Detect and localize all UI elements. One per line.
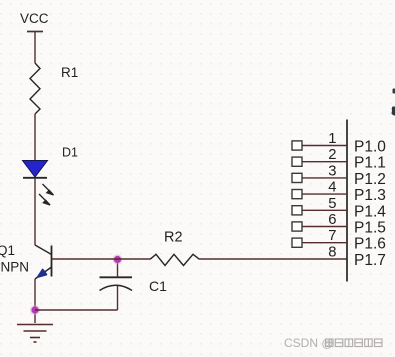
junction node C1/R2/base [113, 255, 123, 265]
svg-text:P1.6: P1.6 [354, 236, 386, 253]
LED D1 emission arrow 1 [43, 184, 54, 195]
connector body edge [346, 120, 348, 282]
wire pin 5 [302, 209, 347, 211]
wire Q1 emitter to ground node [34, 279, 36, 323]
pin 7 terminal square [292, 238, 302, 247]
svg-text:6: 6 [328, 212, 336, 228]
svg-text:NPN: NPN [1, 259, 30, 274]
svg-text:P1.0: P1.0 [354, 139, 386, 156]
wire pin 7 [302, 242, 347, 244]
wire ground node to C1 bottom (horizontal) [35, 309, 118, 311]
wire R2 to connector pin 8 [200, 258, 348, 260]
pin 1 terminal square [292, 141, 302, 150]
wire pin 1 [302, 145, 347, 147]
wire pin 2 [302, 161, 347, 163]
svg-text:C1: C1 [149, 278, 167, 294]
edge artifact right blob [392, 107, 395, 116]
wire Q1 base to R2 [52, 258, 151, 260]
wire R1 to D1 [34, 114, 36, 161]
svg-text:R2: R2 [164, 230, 183, 246]
wire pin 4 [302, 193, 347, 195]
transistor Q1 emitter line [35, 267, 52, 279]
wire pin 3 [302, 177, 347, 179]
wire C1 top lead [117, 259, 119, 277]
LED D1 triangle [23, 161, 48, 178]
transistor Q1 collector line [35, 245, 52, 255]
svg-text:D1: D1 [62, 146, 78, 160]
LED D1 emission arrow 2 [39, 194, 50, 205]
LED D1 cathode bar [23, 177, 47, 179]
wire pin 6 [302, 226, 347, 228]
transistor Q1 base bar [51, 246, 53, 277]
capacitor C1 top plate [100, 276, 133, 278]
svg-text:5: 5 [328, 196, 336, 212]
svg-text:4: 4 [328, 180, 336, 196]
svg-text:7: 7 [328, 228, 336, 244]
capacitor C1 curved plate [100, 285, 133, 290]
svg-text:3: 3 [328, 163, 336, 179]
wire C1 bottom lead (vertical) [117, 286, 119, 310]
resistor R2 [150, 254, 200, 265]
svg-text:1: 1 [328, 131, 336, 147]
svg-text:2: 2 [328, 147, 336, 163]
resistor R1 [30, 63, 40, 114]
power VCC bar symbol [27, 31, 43, 33]
svg-text:P1.7: P1.7 [354, 252, 386, 269]
edge artifact top-right small [393, 89, 395, 94]
svg-text:P1.2: P1.2 [354, 171, 386, 188]
svg-text:P1.5: P1.5 [354, 220, 386, 237]
transistor Q1 emitter arrow [38, 270, 46, 277]
watermark CSDN [284, 336, 382, 350]
pin 3 terminal square [292, 173, 302, 182]
svg-text:P1.3: P1.3 [354, 187, 386, 204]
pin 5 terminal square [292, 206, 302, 215]
svg-text:P1.1: P1.1 [354, 155, 386, 172]
wire D1 to Q1 collector [34, 179, 36, 245]
wire VCC to R1 [34, 32, 36, 64]
pin 6 terminal square [292, 222, 302, 231]
svg-text:R1: R1 [61, 65, 78, 80]
junction node emitter/ground [30, 305, 40, 315]
svg-text:VCC: VCC [20, 11, 49, 26]
pin 2 terminal square [292, 157, 302, 166]
svg-text:P1.4: P1.4 [354, 203, 386, 220]
pin 4 terminal square [292, 190, 302, 199]
svg-text:Q1: Q1 [0, 243, 15, 258]
ground symbol [17, 325, 53, 343]
svg-text:8: 8 [328, 245, 336, 261]
